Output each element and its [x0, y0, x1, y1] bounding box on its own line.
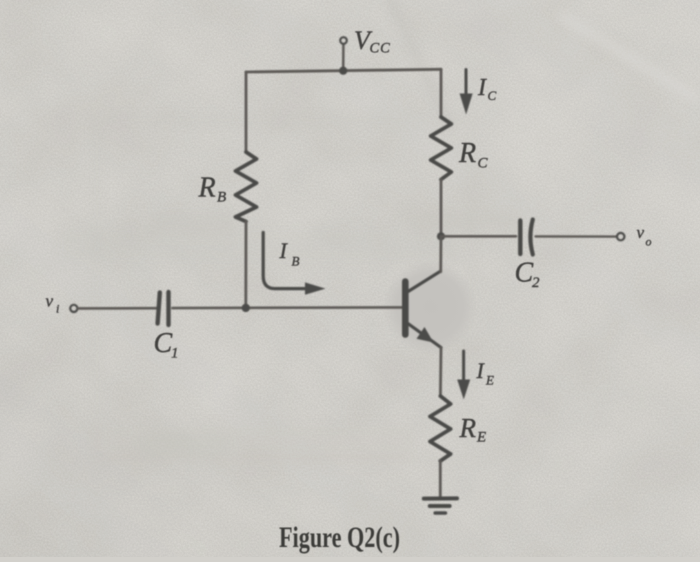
svg-text:Figure Q2(c): Figure Q2(c): [279, 521, 400, 554]
svg-text:o: o: [646, 235, 652, 249]
svg-text:CC: CC: [370, 41, 391, 57]
svg-text:C: C: [154, 328, 173, 359]
svg-text:1: 1: [171, 346, 179, 362]
svg-text:v: v: [637, 223, 645, 242]
svg-text:2: 2: [532, 275, 540, 291]
svg-text:E: E: [476, 430, 486, 446]
svg-text:E: E: [485, 373, 494, 388]
svg-text:R: R: [459, 413, 477, 443]
svg-text:B: B: [217, 190, 226, 206]
svg-text:R: R: [198, 173, 216, 204]
svg-text:i: i: [56, 302, 59, 316]
svg-text:C: C: [488, 88, 497, 103]
svg-text:C: C: [515, 258, 534, 289]
svg-text:C: C: [478, 156, 489, 172]
svg-text:I: I: [477, 75, 487, 101]
svg-text:v: v: [46, 292, 54, 311]
svg-text:R: R: [458, 138, 476, 169]
svg-text:B: B: [292, 254, 300, 269]
